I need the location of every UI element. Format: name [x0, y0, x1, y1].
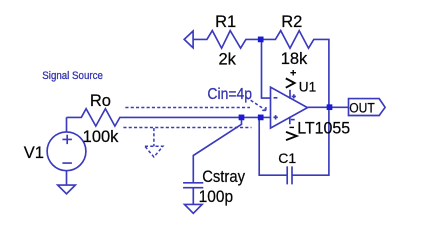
svg-text:Cin=4p: Cin=4p [207, 86, 252, 103]
svg-text:R2: R2 [281, 13, 302, 31]
svg-text:LT1055: LT1055 [297, 119, 350, 137]
svg-text:C1: C1 [278, 150, 296, 166]
svg-text:V1: V1 [24, 144, 44, 162]
svg-text:Signal Source: Signal Source [42, 70, 103, 82]
svg-text:100p: 100p [199, 188, 234, 206]
svg-text:Cstray: Cstray [202, 168, 245, 186]
svg-text:Ro: Ro [90, 92, 111, 110]
svg-text:18k: 18k [281, 50, 308, 68]
svg-text:U1: U1 [299, 80, 316, 95]
svg-text:2k: 2k [218, 50, 236, 68]
svg-text:R1: R1 [215, 13, 236, 31]
svg-text:100k: 100k [83, 128, 120, 146]
svg-text:OUT: OUT [349, 101, 375, 117]
